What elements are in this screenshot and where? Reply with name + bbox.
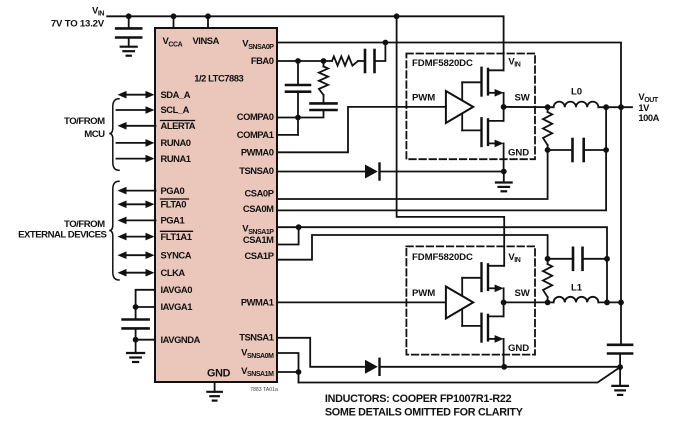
svg-text:SDA_A: SDA_A bbox=[161, 89, 191, 100]
junction VSNSA1P CSA1M tie bbox=[296, 224, 302, 230]
wire feedback cap to VSNSA0P bbox=[375, 43, 386, 62]
junction DCR cap output side channel 1 bbox=[604, 256, 610, 262]
wire TSNSA0 bbox=[277, 171, 365, 173]
svg-text:FLT1A1: FLT1A1 bbox=[161, 231, 192, 242]
svg-text:SCL_A: SCL_A bbox=[161, 104, 190, 115]
wire VIN top rail bbox=[107, 16, 503, 70]
driver gate splitter wire bbox=[461, 82, 463, 130]
svg-text:TO/FROM: TO/FROM bbox=[64, 219, 105, 230]
svg-text:FDMF5820DC: FDMF5820DC bbox=[412, 58, 473, 69]
svg-text:PWMA0: PWMA0 bbox=[241, 147, 274, 158]
wire CSA0M to DCR sense cap bbox=[277, 150, 606, 210]
capacitor comp C1 below resistor bbox=[311, 102, 337, 105]
inductor L1 bbox=[554, 297, 599, 303]
wire PWMA0 to power stage PWM input bbox=[277, 107, 446, 152]
wire VINSA pin to rail bbox=[207, 16, 209, 28]
svg-text:INDUCTORS: COOPER FP1007R1-R22: INDUCTORS: COOPER FP1007R1-R22 bbox=[325, 393, 512, 405]
svg-text:7V TO 13.2V: 7V TO 13.2V bbox=[51, 18, 105, 29]
wire ground bus to output capacitor bbox=[380, 366, 621, 368]
wire DCR cap row channel 0 bbox=[548, 149, 573, 151]
junction IAVGNDA bbox=[133, 337, 139, 343]
junction VOUT rail channel 0 bbox=[618, 104, 624, 110]
resistor comp R FBA0 branch bbox=[319, 67, 328, 96]
junction IAVGA1 bbox=[133, 304, 139, 310]
ground output bbox=[619, 367, 621, 386]
driver gate splitter wire bbox=[461, 278, 463, 326]
svg-text:L0: L0 bbox=[571, 87, 582, 98]
transistor high-side MOSFET bbox=[480, 263, 482, 291]
capacitor current averaging bbox=[123, 318, 149, 321]
op-amp U3 FDMF5820DC power stage 1 dashed outline bbox=[406, 246, 535, 354]
svg-text:ALERTA: ALERTA bbox=[161, 120, 196, 131]
resistor DCR sense channel 1 bbox=[547, 297, 549, 302]
wire IAVGA0 to averaging cap bbox=[136, 290, 155, 320]
op-amp U1 : 1/2 LTC7883 controller block body bbox=[155, 28, 277, 382]
svg-text:SW: SW bbox=[515, 288, 531, 299]
wire arrow RUNA0 input bbox=[117, 142, 147, 144]
svg-text:SOME DETAILS OMITTED FOR CLARI: SOME DETAILS OMITTED FOR CLARITY bbox=[325, 406, 524, 418]
wire FBA0 bbox=[277, 60, 332, 62]
capacitor feedback bbox=[364, 50, 367, 72]
svg-text:CSA0M: CSA0M bbox=[243, 203, 274, 214]
wire DCR cap row channel 1 bbox=[548, 258, 573, 260]
junction VSNSA0M VSNSA1M tie bbox=[296, 369, 302, 375]
node SW junction bbox=[501, 300, 507, 306]
junction DCR RC channel 1 bbox=[545, 256, 551, 262]
svg-text:PWM: PWM bbox=[412, 288, 435, 299]
junction VOUT rail channel 1 bbox=[618, 300, 624, 306]
wire SW1 to inductor bbox=[504, 301, 554, 303]
junction FBA0 cap branch bbox=[295, 58, 301, 64]
svg-text:GND: GND bbox=[508, 343, 529, 354]
svg-text:IAVGA1: IAVGA1 bbox=[161, 301, 193, 312]
svg-text:7883 TA01a: 7883 TA01a bbox=[250, 387, 278, 393]
wire VCCA pin to rail bbox=[173, 16, 175, 28]
wire CSA0P to DCR sense RC junction bbox=[277, 150, 548, 199]
svg-text:FBA0: FBA0 bbox=[251, 55, 274, 66]
wire arrow ALERTA output bbox=[126, 125, 156, 127]
capacitor comp C2 FBA0 to COMP bbox=[297, 61, 299, 85]
svg-text:IAVGNDA: IAVGNDA bbox=[161, 334, 201, 345]
wire low-side source 1 to ground bus bbox=[503, 339, 505, 367]
op-amp U2 FDMF5820DC power stage 0 dashed outline bbox=[406, 54, 535, 160]
junction on VIN rail at VINSA bbox=[205, 13, 211, 19]
svg-text:TSNSA1: TSNSA1 bbox=[239, 331, 274, 342]
transistor low-side MOSFET bbox=[480, 118, 482, 146]
svg-text:FDMF5820DC: FDMF5820DC bbox=[412, 252, 473, 263]
diode temperature sense channel 0 bbox=[365, 165, 378, 179]
junction on VIN rail at VCCA bbox=[171, 13, 177, 19]
svg-text:VIN: VIN bbox=[508, 252, 520, 264]
svg-text:PGA1: PGA1 bbox=[161, 215, 185, 226]
svg-text:VIN: VIN bbox=[92, 6, 104, 18]
wire arrow PGA0 output bbox=[126, 190, 156, 192]
svg-text:PGA0: PGA0 bbox=[161, 185, 185, 196]
capacitor DCR sense channel 0 bbox=[571, 139, 574, 161]
wire COMPA0 bbox=[277, 110, 324, 118]
junction on VIN rail at input cap bbox=[126, 13, 132, 19]
wire arrow SCL_A input bbox=[117, 109, 147, 111]
svg-text:EXTERNAL DEVICES: EXTERNAL DEVICES bbox=[18, 229, 107, 240]
wire arrow FLTA0 bidirectional bbox=[126, 203, 147, 205]
junction output cap ground node bbox=[617, 364, 623, 370]
node SW junction bbox=[501, 104, 507, 110]
svg-text:SYNCA: SYNCA bbox=[161, 249, 192, 260]
svg-text:L1: L1 bbox=[571, 283, 583, 294]
svg-text:GND: GND bbox=[508, 147, 529, 158]
svg-text:RUNA1: RUNA1 bbox=[161, 153, 191, 164]
junction power stage 1 ground bbox=[501, 364, 507, 370]
resistor feedback to VSNSA0P bbox=[332, 56, 358, 65]
wire remote ground sense bus bbox=[299, 367, 621, 382]
wire VSNSA1M bbox=[277, 371, 299, 373]
ground input cap bbox=[128, 38, 130, 47]
wire CSA1P to DCR sense RC junction channel 1 bbox=[277, 235, 548, 260]
wire inductor L1 to VOUT rail bbox=[598, 301, 621, 303]
svg-text:VIN: VIN bbox=[508, 56, 520, 68]
junction DCR cap output side channel 0 bbox=[603, 147, 609, 153]
svg-text:COMPA0: COMPA0 bbox=[237, 111, 274, 122]
junction VSNSA0P feedback RC tap bbox=[383, 40, 389, 46]
svg-text:100A: 100A bbox=[638, 112, 659, 123]
capacitor DCR sense channel 1 bbox=[572, 248, 575, 270]
wire PWMA1 to power stage PWM input bbox=[277, 301, 446, 303]
svg-text:FLTA0: FLTA0 bbox=[161, 199, 187, 210]
op-amp driver buffer triangle bbox=[446, 287, 473, 319]
wire COMPA1 to comp node bbox=[277, 134, 298, 136]
svg-text:SW: SW bbox=[515, 92, 531, 103]
junction FBA0 resistor branch bbox=[321, 58, 327, 64]
transistor low-side MOSFET bbox=[480, 314, 482, 342]
svg-text:GND: GND bbox=[207, 368, 231, 380]
wire SW0 to inductor bbox=[504, 106, 554, 108]
wire IAVGA1 stub bbox=[136, 306, 155, 308]
svg-text:VINSA: VINSA bbox=[193, 35, 220, 46]
wire arrow RUNA1 input bbox=[117, 158, 147, 160]
junction on VIN rail to lower power stage bbox=[394, 13, 400, 19]
wire TSNSA1 bbox=[277, 338, 365, 367]
diode temperature sense channel 1 bbox=[365, 360, 378, 374]
junction COMPA0 node bbox=[295, 115, 301, 121]
svg-text:1/2 LTC7883: 1/2 LTC7883 bbox=[194, 73, 243, 84]
svg-text:CSA1M: CSA1M bbox=[243, 234, 274, 245]
svg-text:PWMA1: PWMA1 bbox=[241, 296, 274, 307]
wire IAVGNDA stub bbox=[136, 339, 155, 341]
wire inductor L0 to VOUT bbox=[598, 106, 632, 108]
junction L1 output sense bbox=[604, 300, 610, 306]
wire arrow CLKA bidirectional bbox=[126, 272, 147, 274]
svg-text:RUNA0: RUNA0 bbox=[161, 137, 191, 148]
svg-text:CSA1P: CSA1P bbox=[244, 250, 273, 261]
wire DCR sense cap to L1 output bbox=[606, 259, 608, 303]
svg-text:IAVGA0: IAVGA0 bbox=[161, 284, 193, 295]
wire arrow SDA_A bidirectional bbox=[126, 94, 147, 96]
junction SW1 sense resistor bbox=[545, 300, 551, 306]
junction DCR RC channel 0 bbox=[545, 147, 551, 153]
svg-text:COMPA1: COMPA1 bbox=[237, 129, 274, 140]
wire arrow SYNCA bidirectional bbox=[126, 254, 147, 256]
transistor high-side MOSFET bbox=[480, 68, 482, 96]
svg-text:TSNSA0: TSNSA0 bbox=[239, 165, 274, 176]
junction L0 output sense bbox=[603, 104, 609, 110]
wire low-side source to ground bbox=[503, 143, 505, 171]
wire diode cathode to power ground bbox=[380, 171, 504, 173]
wire arrow PGA1 output bbox=[126, 219, 156, 221]
brace TO/FROM EXTERNAL DEVICES group bbox=[109, 181, 119, 280]
resistor DCR sense channel 0 bbox=[547, 107, 549, 112]
wire VSNSA1P to L1 output node bbox=[277, 227, 607, 259]
ground IAVGNDA bbox=[135, 340, 137, 353]
svg-text:CLKA: CLKA bbox=[161, 267, 186, 278]
svg-text:PWM: PWM bbox=[412, 92, 435, 103]
brace TO/FROM MCU group bbox=[109, 99, 119, 171]
capacitor input bypass bbox=[128, 16, 130, 28]
ground GND pin of LTC7883 bbox=[214, 382, 216, 392]
svg-text:CSA0P: CSA0P bbox=[244, 187, 273, 198]
wire VSNSA0M bbox=[277, 353, 299, 383]
inductor L0 bbox=[554, 102, 599, 108]
wire L0 output to DCR sense cap bbox=[605, 107, 607, 150]
junction power stage 0 ground bbox=[501, 169, 507, 175]
junction SW0 snubber bbox=[545, 104, 551, 110]
wire VIN branch to power stage 1 bbox=[397, 16, 505, 266]
op-amp driver buffer triangle bbox=[446, 91, 473, 123]
wire VSNSA0P to VOUT rail bbox=[277, 43, 621, 345]
svg-text:TO/FROM: TO/FROM bbox=[64, 116, 105, 127]
svg-text:MCU: MCU bbox=[84, 129, 105, 140]
capacitor output bulk bbox=[608, 343, 632, 346]
ground power stage 0 bbox=[503, 172, 505, 183]
wire arrow FLT1A1 bidirectional bbox=[126, 236, 147, 238]
wire CSA1M tie to VSNSA1P bbox=[277, 227, 299, 244]
